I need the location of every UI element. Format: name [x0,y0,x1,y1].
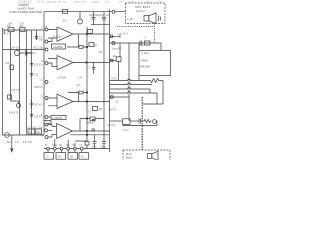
svg-text:100u: 100u [92,147,98,149]
svg-text:R15 47k: R15 47k [34,87,43,89]
svg-text:8ohm: 8ohm [126,157,132,160]
svg-text:cut off 2: cut off 2 [107,124,116,127]
svg-text:1 ohm: 1 ohm [142,51,150,55]
svg-text:C12 2.2k: C12 2.2k [11,90,21,92]
svg-text:LA4632: LA4632 [53,116,63,120]
svg-text:1 . AN-1234 . 56 . 78: 1 . AN-1234 . 56 . 78 [44,1,67,4]
svg-text:3.45: 3.45 [145,1,150,4]
svg-text:Set: 15 - 16.5V: Set: 15 - 16.5V [7,140,32,144]
svg-text:C-47: C-47 [78,77,84,79]
svg-text:L 4790B: L 4790B [57,77,66,79]
svg-text:Vin 1 W: Vin 1 W [3,34,12,36]
svg-text:C13: C13 [34,75,39,77]
svg-text:AUDIO POWER AMPLIFIER: AUDIO POWER AMPLIFIER [9,10,42,14]
svg-text:C03 10u: C03 10u [27,53,36,55]
svg-text:+2V: +2V [45,122,49,124]
svg-text:C05 47u: C05 47u [34,105,43,107]
svg-text:C05: C05 [20,23,25,25]
svg-text:RC: RC [73,145,77,147]
svg-text:1.7-8: 1.7-8 [156,1,162,4]
svg-text:OUT L: OUT L [111,78,118,80]
svg-text:C06: C06 [5,63,10,65]
svg-text:4 ohm: 4 ohm [123,130,129,132]
svg-text:C04 10u: C04 10u [11,48,20,50]
svg-text:SB: SB [66,145,70,147]
svg-text:10R: 10R [8,23,13,25]
svg-text:LA4632: LA4632 [53,45,63,49]
svg-text:8ohm: 8ohm [137,9,146,13]
svg-text:cut off 1: cut off 1 [118,33,129,36]
svg-text:220u: 220u [101,147,107,149]
svg-text:cut off 2: cut off 2 [113,48,122,51]
svg-text:SANYO 5-6: SANYO 5-6 [74,1,87,4]
svg-text:OUT R: OUT R [109,110,116,112]
svg-text:ICs 8M-123: ICs 8M-123 [19,1,32,4]
svg-text:IN: IN [45,145,48,147]
svg-text:C08 1000/16V: C08 1000/16V [89,15,104,17]
svg-text:ohm: ohm [140,45,145,47]
svg-text:GND: GND [52,145,57,147]
svg-text:2-ch BTL DUAL: 2-ch BTL DUAL [17,6,36,10]
svg-text:E-90.12: E-90.12 [128,1,137,4]
svg-text:R14 4.7k: R14 4.7k [9,113,19,115]
svg-text:R/B 3W: R/B 3W [140,65,150,69]
svg-text:FC: FC [80,145,83,147]
svg-text:L-ch: L-ch [128,17,134,21]
svg-text:S-11: S-11 [105,1,111,4]
svg-text:C09: C09 [106,15,111,17]
svg-text:C05 47u: C05 47u [34,65,43,67]
svg-text:#200: #200 [142,58,149,62]
svg-text:LA4632: LA4632 [91,1,100,4]
svg-text:B 4630A: B 4630A [54,35,63,38]
